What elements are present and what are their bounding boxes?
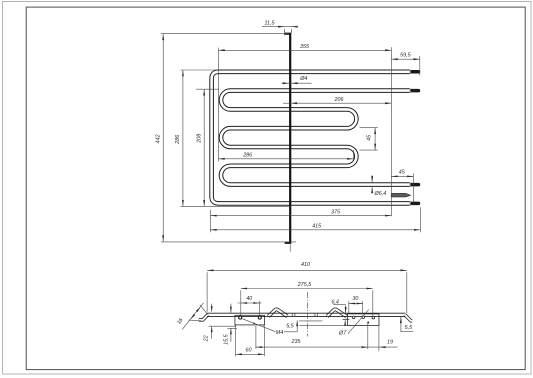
svg-text:45: 45	[399, 170, 406, 176]
svg-text:45: 45	[366, 134, 372, 141]
profile tick marks	[292, 313, 317, 316]
svg-text:286: 286	[175, 135, 181, 145]
dim 60	[236, 327, 265, 356]
dim 355	[218, 44, 391, 51]
label Ø7 with leader	[338, 309, 369, 336]
side view loop bump 2	[327, 309, 346, 316]
side view right bent end	[405, 315, 412, 321]
mounting bracket plate 2	[348, 314, 379, 326]
svg-text:5,5: 5,5	[405, 325, 413, 331]
dim 15,5	[224, 304, 238, 345]
svg-text:235: 235	[291, 339, 302, 345]
svg-text:5,5: 5,5	[286, 324, 294, 330]
svg-text:60: 60	[246, 347, 252, 353]
bracket 1 holes	[239, 316, 262, 319]
dim 45 right (vertical)	[360, 128, 378, 150]
terminal pin 4	[410, 201, 420, 205]
dim 5,5 centre	[286, 320, 351, 332]
dim 16 (diagonal)	[176, 303, 208, 330]
dim 410	[207, 262, 407, 313]
dim 6,4	[331, 299, 346, 326]
svg-text:375: 375	[331, 210, 341, 216]
dim 415	[210, 207, 420, 232]
dim 235	[256, 323, 379, 349]
svg-text:59,5: 59,5	[400, 52, 411, 58]
dim 45 bottom right	[391, 170, 413, 204]
dim 208 (vertical)	[196, 89, 219, 206]
dim 40	[238, 296, 262, 316]
svg-text:19: 19	[387, 340, 393, 346]
dim 286 inner	[218, 48, 353, 162]
center support rod	[285, 34, 291, 243]
terminal pin 1	[410, 70, 420, 74]
dim Ø4 (rod diameter)	[282, 76, 312, 84]
svg-text:15,5: 15,5	[224, 333, 230, 344]
bracket 2 holes	[352, 316, 374, 324]
mounting bracket plate 1	[235, 315, 265, 327]
dim Ø6,4 (tube diameter)	[371, 175, 386, 197]
terminal pin 2	[410, 89, 420, 93]
dim 442 (vertical)	[156, 34, 296, 242]
dim 22	[204, 304, 236, 343]
dim 375	[210, 210, 391, 217]
dim 275,5	[241, 282, 373, 316]
svg-text:206: 206	[334, 97, 344, 103]
svg-text:355: 355	[300, 44, 310, 50]
dim 286 left (vertical)	[175, 70, 290, 206]
dim 5,5 right	[400, 317, 413, 332]
svg-text:208: 208	[197, 134, 203, 144]
heating element outer loop tube (top view)	[212, 72, 410, 204]
dim 19	[379, 314, 398, 351]
svg-text:410: 410	[301, 262, 310, 268]
svg-text:415: 415	[312, 224, 322, 230]
svg-text:11,5: 11,5	[264, 21, 275, 27]
terminal pin 3	[410, 183, 420, 187]
svg-text:40: 40	[246, 296, 252, 302]
svg-text:275,5: 275,5	[297, 282, 312, 288]
dim 59,5	[391, 52, 419, 75]
dim 206	[283, 97, 391, 104]
svg-text:6,4: 6,4	[331, 299, 339, 305]
side view left bent end	[199, 315, 208, 320]
svg-text:Ø7: Ø7	[338, 330, 347, 336]
heating element inner serpentine tube (top view)	[221, 91, 410, 185]
svg-text:Ø6,4: Ø6,4	[374, 191, 387, 197]
middle tapered stud	[391, 193, 410, 197]
dim 30	[349, 296, 363, 314]
side view loop bump 1	[268, 309, 287, 316]
svg-text:442: 442	[156, 135, 162, 144]
svg-text:286: 286	[242, 152, 252, 158]
svg-text:30: 30	[352, 296, 358, 302]
side view tube profile walls	[207, 313, 405, 319]
svg-text:22: 22	[204, 335, 210, 342]
rod lower extension	[289, 244, 291, 252]
dim 11,5 (rod top offset)	[262, 21, 298, 36]
svg-text:M4: M4	[276, 330, 284, 336]
svg-text:Ø4: Ø4	[299, 76, 307, 82]
label M4 with leader	[242, 318, 298, 335]
long extension line right	[390, 47, 392, 216]
side view centre line	[307, 292, 309, 337]
